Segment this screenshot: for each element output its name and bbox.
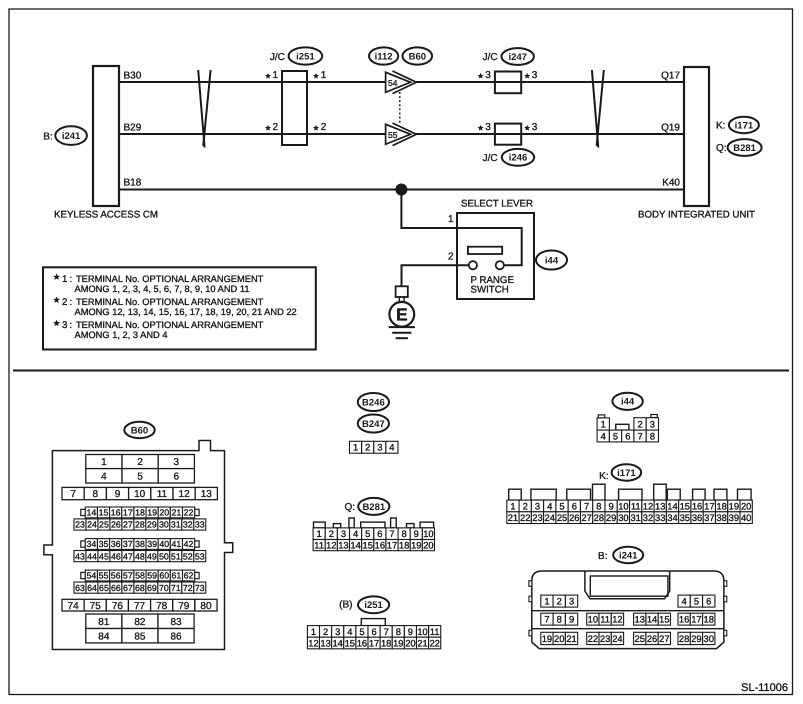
svg-text:9: 9 (569, 614, 574, 625)
svg-text:48: 48 (135, 551, 145, 561)
svg-text:22: 22 (184, 508, 194, 518)
note marker *2 right (313, 125, 319, 131)
svg-text:37: 37 (123, 539, 133, 549)
svg-text:K:: K: (716, 121, 725, 132)
svg-text:1: 1 (510, 500, 515, 511)
svg-text:K:: K: (599, 471, 608, 482)
svg-text:73: 73 (195, 583, 205, 593)
svg-text:26: 26 (569, 512, 579, 523)
B60 pins 23-33 row (74, 519, 86, 530)
svg-text:2: 2 (273, 122, 279, 133)
svg-text:54: 54 (86, 571, 96, 581)
B60 pins 81-86 grid (86, 614, 122, 629)
svg-text:30: 30 (618, 512, 628, 523)
svg-text:3: 3 (62, 320, 67, 331)
svg-text:B30: B30 (124, 71, 142, 82)
svg-text:2: 2 (557, 595, 562, 606)
connector pinout B60 oval label (124, 422, 154, 438)
svg-text:36: 36 (692, 512, 702, 523)
i44 pins 2-3 cells (634, 418, 646, 430)
svg-text:24: 24 (87, 520, 97, 530)
svg-text:55: 55 (388, 130, 398, 140)
svg-text:4: 4 (347, 626, 352, 637)
svg-text:SL-11006: SL-11006 (741, 682, 788, 694)
i241 latch recess (590, 576, 668, 596)
svg-text:16: 16 (357, 637, 367, 648)
svg-text:17: 17 (704, 500, 714, 511)
svg-text:20: 20 (554, 633, 564, 644)
svg-text:45: 45 (99, 551, 109, 561)
i241 pins 19-21 (541, 632, 553, 644)
svg-text:62: 62 (184, 571, 194, 581)
svg-text:2: 2 (365, 442, 370, 453)
svg-text:11: 11 (600, 614, 610, 625)
svg-text:75: 75 (90, 601, 102, 612)
svg-text:16: 16 (692, 500, 702, 511)
svg-text:2: 2 (137, 457, 143, 468)
B246/B247 pins 1-4 row (350, 441, 362, 453)
svg-text:21: 21 (508, 512, 518, 523)
svg-text:42: 42 (184, 539, 194, 549)
ground connector square (396, 286, 408, 297)
B60 pins 43-53 row (74, 551, 86, 562)
svg-text:22: 22 (588, 633, 598, 644)
svg-text:4: 4 (101, 471, 107, 482)
notes box: terminal arrangement (43, 267, 316, 349)
svg-text:7: 7 (389, 528, 394, 539)
svg-text:31: 31 (630, 512, 640, 523)
B60 pins 7-13 row (62, 487, 84, 499)
svg-text:33: 33 (195, 520, 205, 530)
svg-text:68: 68 (135, 583, 145, 593)
svg-text:B60: B60 (131, 425, 148, 436)
svg-text:i171: i171 (617, 468, 636, 479)
svg-text:25: 25 (635, 633, 645, 644)
i44 top tabs (598, 415, 605, 418)
svg-text:19: 19 (393, 637, 403, 648)
svg-text:i251: i251 (364, 600, 383, 611)
svg-text:26: 26 (647, 633, 657, 644)
svg-text:Q:: Q: (716, 143, 727, 154)
svg-text:3: 3 (485, 70, 491, 81)
svg-text:15: 15 (345, 637, 355, 648)
svg-text:9: 9 (408, 626, 413, 637)
svg-text:10: 10 (588, 614, 598, 625)
svg-text:5: 5 (365, 528, 370, 539)
i241 pins 10-12 (587, 613, 599, 625)
svg-text:39: 39 (147, 539, 157, 549)
svg-text:40: 40 (741, 512, 751, 523)
svg-text:70: 70 (159, 583, 169, 593)
svg-text:65: 65 (99, 583, 109, 593)
svg-text:B18: B18 (124, 178, 142, 189)
svg-text:43: 43 (75, 551, 85, 561)
svg-text:i241: i241 (62, 131, 81, 142)
svg-text:TERMINAL No. OPTIONAL ARRANGEM: TERMINAL No. OPTIONAL ARRANGEMENT (76, 297, 264, 307)
connector oval i44 (536, 251, 567, 270)
svg-text:13: 13 (655, 500, 665, 511)
SELECT LEVER box (457, 213, 534, 299)
svg-text:7: 7 (384, 626, 389, 637)
i171 pins 21-40 row (507, 512, 519, 524)
note marker *1 right (313, 73, 319, 79)
svg-text:18: 18 (135, 508, 145, 518)
svg-text:36: 36 (111, 539, 121, 549)
junction connector J/C i251 box (282, 71, 307, 145)
svg-text:21: 21 (417, 637, 427, 648)
in-line connector 54 (i112 to B60) (386, 72, 411, 92)
svg-text:2: 2 (329, 528, 334, 539)
svg-text:2: 2 (323, 626, 328, 637)
svg-text:6: 6 (377, 528, 382, 539)
connector oval B60 top (403, 47, 433, 64)
svg-text:46: 46 (111, 551, 121, 561)
svg-text:4: 4 (601, 430, 606, 441)
svg-text:61: 61 (172, 571, 182, 581)
wire from connector 55 to Q19 (416, 133, 684, 135)
svg-text:9: 9 (115, 489, 121, 500)
note marker *3 right of i246 (524, 125, 530, 131)
svg-text:53: 53 (195, 551, 205, 561)
svg-text:3: 3 (174, 457, 180, 468)
svg-text:22: 22 (429, 637, 439, 648)
svg-text:17: 17 (387, 539, 397, 550)
svg-text:E: E (396, 305, 408, 325)
svg-text:B281: B281 (362, 502, 385, 513)
svg-text:16: 16 (375, 539, 385, 550)
svg-text:2: 2 (62, 297, 67, 308)
i44 pin 1 cell (597, 418, 609, 430)
i241 pins 25-27 (634, 632, 646, 644)
svg-text:7: 7 (637, 430, 642, 441)
twisted-pair marker left (198, 70, 204, 148)
svg-text:74: 74 (68, 601, 80, 612)
svg-text:14: 14 (350, 539, 360, 550)
svg-text:13: 13 (635, 614, 645, 625)
svg-text:B281: B281 (733, 143, 756, 154)
svg-text:21: 21 (566, 633, 576, 644)
svg-text:16: 16 (111, 508, 121, 518)
svg-text:20: 20 (423, 539, 433, 550)
connector pinout B60 shell (44, 441, 233, 650)
svg-text:i251: i251 (296, 51, 315, 62)
svg-text:20: 20 (741, 500, 751, 511)
connector block BODY INTEGRATED UNIT (684, 67, 709, 206)
svg-text:B247: B247 (362, 419, 385, 430)
svg-text:TERMINAL No. OPTIONAL ARRANGEM: TERMINAL No. OPTIONAL ARRANGEMENT (76, 320, 264, 330)
ground symbol (389, 326, 415, 328)
svg-text:4: 4 (682, 595, 687, 606)
svg-text:1: 1 (317, 528, 322, 539)
svg-text:34: 34 (667, 512, 677, 523)
wire from junction to select lever pin 1 (401, 190, 521, 266)
svg-text:10: 10 (423, 528, 433, 539)
svg-text:5: 5 (137, 471, 143, 482)
svg-text:27: 27 (659, 633, 669, 644)
B60 pins 63-73 row (74, 582, 86, 593)
svg-text:67: 67 (123, 583, 133, 593)
svg-text:29: 29 (606, 512, 616, 523)
svg-text:19: 19 (147, 508, 157, 518)
svg-text:10: 10 (134, 489, 146, 500)
note marker *3 left of i247 (478, 73, 484, 79)
svg-text:18: 18 (716, 500, 726, 511)
svg-text:24: 24 (612, 633, 622, 644)
svg-text:77: 77 (134, 601, 146, 612)
svg-text:B29: B29 (124, 123, 142, 134)
svg-text:8: 8 (402, 528, 407, 539)
i241 pins 4-6 (678, 595, 690, 607)
svg-text:8: 8 (93, 489, 99, 500)
svg-text:18: 18 (381, 637, 391, 648)
svg-text:27: 27 (581, 512, 591, 523)
svg-text:8: 8 (650, 430, 655, 441)
junction connector J/C i247 box (495, 72, 521, 94)
svg-text:18: 18 (399, 539, 409, 550)
svg-text:66: 66 (111, 583, 121, 593)
svg-text:i246: i246 (509, 153, 528, 164)
svg-text:3: 3 (569, 595, 574, 606)
svg-text:17: 17 (123, 508, 133, 518)
svg-text:20: 20 (159, 508, 169, 518)
svg-text:J/C: J/C (483, 52, 498, 63)
i44 pins 4-8 row (597, 430, 609, 442)
i241 shell (532, 571, 724, 649)
svg-text:TERMINAL No. OPTIONAL ARRANGEM: TERMINAL No. OPTIONAL ARRANGEMENT (76, 274, 264, 284)
note marker *3 right of i247 (524, 73, 530, 79)
svg-text:13: 13 (320, 637, 330, 648)
svg-text:33: 33 (655, 512, 665, 523)
svg-text:6: 6 (371, 626, 376, 637)
svg-text:3: 3 (377, 442, 382, 453)
svg-text:7: 7 (70, 489, 76, 500)
svg-text:1: 1 (544, 595, 549, 606)
svg-text:3: 3 (485, 122, 491, 133)
svg-text:1: 1 (601, 418, 606, 429)
svg-text:2: 2 (523, 500, 528, 511)
svg-text:7: 7 (584, 500, 589, 511)
svg-text:25: 25 (557, 512, 567, 523)
svg-text:72: 72 (183, 583, 193, 593)
svg-text:14: 14 (86, 508, 96, 518)
i241 pins 13-15 (634, 613, 646, 625)
svg-text:79: 79 (178, 601, 190, 612)
svg-text:7: 7 (544, 614, 549, 625)
svg-text:12: 12 (326, 539, 336, 550)
svg-text:BODY INTEGRATED UNIT: BODY INTEGRATED UNIT (638, 210, 755, 221)
svg-text:17: 17 (369, 637, 379, 648)
svg-text:69: 69 (147, 583, 157, 593)
svg-text:8: 8 (596, 500, 601, 511)
svg-text:85: 85 (134, 631, 146, 642)
svg-text:2: 2 (321, 122, 327, 133)
svg-text:15: 15 (363, 539, 373, 550)
connector oval i112 (369, 47, 398, 64)
svg-text:i44: i44 (621, 397, 635, 408)
svg-text:38: 38 (716, 512, 726, 523)
svg-text:26: 26 (111, 520, 121, 530)
svg-text:KEYLESS ACCESS CM: KEYLESS ACCESS CM (54, 210, 158, 221)
B281 pins 11-20 row (313, 540, 325, 551)
twisted-pair marker right (592, 70, 598, 148)
svg-text:1: 1 (101, 457, 107, 468)
svg-text:4: 4 (389, 442, 394, 453)
svg-text:86: 86 (170, 631, 182, 642)
svg-text:10: 10 (618, 500, 628, 511)
svg-text:6: 6 (706, 595, 711, 606)
svg-text:18: 18 (704, 614, 714, 625)
svg-text:12: 12 (179, 489, 191, 500)
svg-text:20: 20 (405, 637, 415, 648)
wire from connector 54 to Q17 (416, 81, 684, 83)
svg-text:54: 54 (388, 78, 398, 88)
svg-text:19: 19 (729, 500, 739, 511)
svg-text:37: 37 (704, 512, 714, 523)
wire B30 to connector 54 segment (119, 81, 386, 83)
svg-text:81: 81 (98, 617, 110, 628)
section divider line (13, 370, 789, 372)
svg-text:SELECT LEVER: SELECT LEVER (461, 199, 533, 210)
svg-text:23: 23 (600, 633, 610, 644)
svg-text:80: 80 (200, 601, 212, 612)
svg-text:9: 9 (414, 528, 419, 539)
svg-text:11: 11 (631, 500, 641, 511)
svg-text:(B): (B) (339, 600, 352, 611)
B60 pins 1-6 grid (86, 455, 122, 469)
i241 pins 16-18 (678, 613, 690, 625)
svg-text:AMONG 1, 2, 3 AND 4: AMONG 1, 2, 3 AND 4 (75, 330, 168, 340)
svg-text:B60: B60 (409, 51, 426, 62)
svg-text:12: 12 (643, 500, 653, 511)
svg-text:12: 12 (308, 637, 318, 648)
svg-text:J/C: J/C (483, 153, 498, 164)
connector pinout B246/B247 oval labels (358, 393, 389, 411)
i251 keying tab (361, 619, 385, 626)
svg-text:14: 14 (667, 500, 677, 511)
svg-text:23: 23 (532, 512, 542, 523)
svg-text:82: 82 (134, 617, 146, 628)
svg-text:40: 40 (159, 539, 169, 549)
svg-text:1: 1 (321, 70, 327, 81)
svg-text:Q19: Q19 (661, 123, 680, 134)
svg-text:51: 51 (171, 551, 181, 561)
connector block KEYLESS ACCESS CM (93, 66, 119, 206)
svg-text:15: 15 (99, 508, 109, 518)
P range switch contact left (469, 261, 477, 269)
i251 pins 12-22 row (307, 637, 319, 649)
svg-text:SWITCH: SWITCH (471, 285, 509, 296)
svg-text:30: 30 (704, 633, 714, 644)
svg-text:59: 59 (147, 571, 157, 581)
svg-text:i112: i112 (375, 51, 393, 62)
dotted link between connectors 54 and 55 (399, 92, 401, 125)
svg-text:B:: B: (43, 131, 52, 142)
svg-text:i171: i171 (735, 120, 754, 131)
svg-text:B:: B: (598, 551, 607, 562)
i251 pins 1-11 row (307, 626, 319, 638)
svg-text:2: 2 (637, 418, 642, 429)
svg-text:12: 12 (612, 614, 622, 625)
B281 pins 1-10 row (313, 528, 325, 540)
B60 pins 74-80 row (62, 599, 84, 611)
svg-text:3: 3 (650, 418, 655, 429)
svg-text:3: 3 (532, 122, 538, 133)
i171 pins 1-20 row (507, 500, 519, 512)
svg-text:4: 4 (547, 500, 552, 511)
svg-text:22: 22 (520, 512, 530, 523)
wire B18 to K40 (119, 189, 684, 191)
svg-text::: : (70, 297, 73, 308)
note marker *3 left of i246 (478, 125, 484, 131)
svg-text:i44: i44 (545, 255, 559, 266)
ground point E (389, 302, 414, 327)
svg-text:6: 6 (174, 471, 180, 482)
svg-text:56: 56 (111, 571, 121, 581)
svg-text:28: 28 (679, 633, 689, 644)
svg-text:1: 1 (273, 70, 279, 81)
svg-text:6: 6 (625, 430, 630, 441)
svg-text:1: 1 (448, 214, 454, 225)
i241 pins 28-30 (678, 632, 690, 644)
svg-text:9: 9 (609, 500, 614, 511)
P range switch contact right (496, 261, 504, 269)
svg-text:28: 28 (135, 520, 145, 530)
svg-text:29: 29 (147, 520, 157, 530)
svg-text:11: 11 (314, 539, 324, 550)
svg-text::: : (70, 274, 73, 285)
svg-text:3: 3 (535, 500, 540, 511)
i241 pins 7-9 (541, 613, 553, 625)
svg-text:B246: B246 (362, 397, 385, 408)
B60 pins 14-22 row (81, 509, 86, 515)
svg-text:55: 55 (99, 571, 109, 581)
svg-text:Q:: Q: (344, 502, 355, 513)
svg-text:71: 71 (171, 583, 181, 593)
svg-text:83: 83 (170, 617, 182, 628)
svg-text:10: 10 (417, 626, 427, 637)
svg-text:23: 23 (75, 520, 85, 530)
svg-text:28: 28 (594, 512, 604, 523)
svg-text:21: 21 (172, 508, 182, 518)
svg-text:8: 8 (557, 614, 562, 625)
svg-text:49: 49 (147, 551, 157, 561)
in-line connector 55 (i112 to B60) (386, 124, 411, 144)
svg-text:1: 1 (353, 442, 358, 453)
svg-text:11: 11 (430, 626, 440, 637)
svg-text:31: 31 (171, 520, 181, 530)
svg-text:24: 24 (545, 512, 555, 523)
svg-text:57: 57 (123, 571, 133, 581)
svg-text:35: 35 (680, 512, 690, 523)
svg-text:41: 41 (172, 539, 182, 549)
junction connector J/C i246 box (495, 124, 521, 145)
svg-text:19: 19 (411, 539, 421, 550)
i241 side tabs (529, 581, 532, 587)
svg-text:J/C: J/C (270, 52, 285, 63)
svg-text:5: 5 (613, 430, 618, 441)
svg-text:13: 13 (201, 489, 213, 500)
svg-text:27: 27 (123, 520, 133, 530)
svg-text:58: 58 (135, 571, 145, 581)
svg-text::: : (70, 320, 73, 331)
svg-text:3: 3 (335, 626, 340, 637)
i44 middle bump (616, 424, 629, 430)
svg-text:1: 1 (62, 274, 67, 285)
i241 pins 1-3 (541, 595, 553, 607)
svg-text:25: 25 (99, 520, 109, 530)
svg-text:15: 15 (680, 500, 690, 511)
svg-text:AMONG 12, 13, 14, 15, 16, 17,: AMONG 12, 13, 14, 15, 16, 17, 18, 19, 20… (75, 307, 297, 317)
